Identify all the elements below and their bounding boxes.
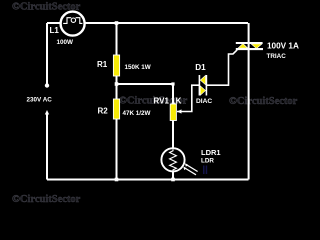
svg-text:©CircuitSector: ©CircuitSector xyxy=(229,96,298,107)
triac U1 xyxy=(236,43,263,49)
wire RV1 top xyxy=(172,84,174,104)
svg-text:TRIAC: TRIAC xyxy=(267,53,287,60)
wire left rail upper xyxy=(46,23,48,84)
junction bottom rail / LDR xyxy=(171,178,175,182)
svg-text:D1: D1 xyxy=(195,63,206,72)
wire DIAC to TRIAC gate xyxy=(206,50,237,85)
wire RV1 to LDR xyxy=(172,121,174,149)
resistor R2 xyxy=(113,99,119,119)
diac D1 xyxy=(199,75,206,96)
svg-text:L1: L1 xyxy=(50,26,60,35)
svg-text:R2: R2 xyxy=(98,106,109,115)
wire RV1 wiper to DIAC xyxy=(177,85,199,111)
svg-text:150K 1W: 150K 1W xyxy=(125,64,151,71)
svg-text:100W: 100W xyxy=(57,39,74,46)
watermark remnant near LDR xyxy=(203,166,205,175)
svg-text:LDR1: LDR1 xyxy=(201,148,221,157)
svg-text:230V AC: 230V AC xyxy=(27,96,53,103)
node 230V AC lower terminal xyxy=(45,110,49,115)
svg-text:R1: R1 xyxy=(97,60,108,69)
wire R2 bottom xyxy=(116,119,118,180)
potentiometer RV1 xyxy=(170,104,176,121)
wire right rail (TRIAC MT2 through MT1 to bottom) xyxy=(248,23,250,180)
svg-text:RV1 1K: RV1 1K xyxy=(154,97,182,106)
RV1 wiper arrow xyxy=(177,109,182,113)
resistor R1 xyxy=(113,55,119,76)
svg-text:DIAC: DIAC xyxy=(196,98,212,105)
wire bottom rail xyxy=(47,179,249,181)
LDR arrows xyxy=(186,164,198,171)
svg-text:©CircuitSector: ©CircuitSector xyxy=(12,194,81,205)
svg-text:100V 1A: 100V 1A xyxy=(267,42,299,51)
wire R1 top xyxy=(116,23,118,55)
wire top rail xyxy=(47,22,248,24)
junction node / RV1 branch corner xyxy=(171,82,174,85)
wire LDR bottom xyxy=(172,172,174,180)
lamp L1 xyxy=(61,12,85,36)
svg-text:LDR: LDR xyxy=(201,158,214,165)
wire left rail lower xyxy=(46,114,48,180)
junction node A (R1/R2/RV1) xyxy=(115,82,119,86)
svg-text:47K 1/2W: 47K 1/2W xyxy=(123,110,151,117)
node 230V AC upper terminal xyxy=(45,83,49,87)
wire R1 bottom to node xyxy=(116,76,118,99)
junction dot top rail / R1 xyxy=(115,21,119,25)
wire node horizontal xyxy=(117,83,174,85)
junction bottom rail / R2 xyxy=(115,178,119,182)
LDR1 photoresistor xyxy=(161,148,197,175)
